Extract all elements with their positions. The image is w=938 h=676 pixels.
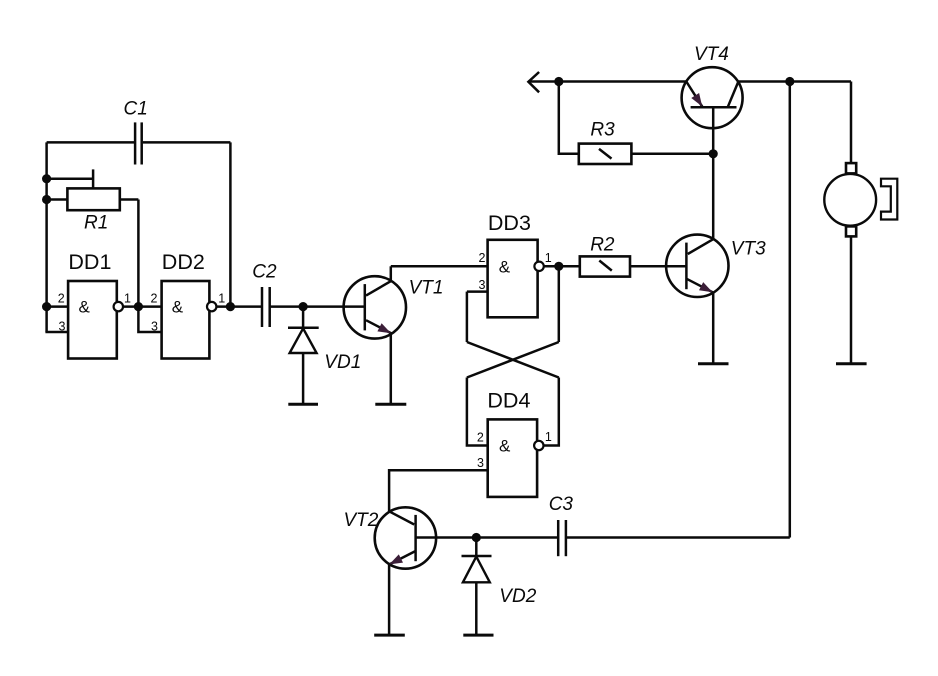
transistor VT2 xyxy=(375,507,436,568)
svg-text:VT1: VT1 xyxy=(409,278,444,299)
resistor R3 xyxy=(579,144,632,164)
wire: top-left feedback horizontal to C1 xyxy=(47,141,134,144)
diode VD2 xyxy=(462,538,492,635)
svg-text:3: 3 xyxy=(478,278,485,292)
wire: VT2 emitter drop xyxy=(388,565,391,635)
node: DD1 out / R1 return junction xyxy=(134,302,143,311)
wire: top rail left segment xyxy=(528,80,686,83)
svg-text:C1: C1 xyxy=(124,99,148,120)
wire: left coupling vertical lower xyxy=(467,378,488,446)
logic gate DD4 xyxy=(488,419,544,497)
wire: C1 right to drop corner xyxy=(143,141,231,144)
svg-text:C2: C2 xyxy=(252,262,277,283)
wire: R2 to VT3 base xyxy=(630,265,686,268)
motor M xyxy=(824,163,897,236)
logic gate DD1 xyxy=(68,281,123,359)
wire: motor drop xyxy=(850,82,853,164)
wire: DD3 pin3 stub xyxy=(467,290,488,293)
wire: VT2 base to C3 xyxy=(416,536,558,539)
wire: coupling diagonal right-to-left xyxy=(467,342,559,378)
wire: DD4 pin3 to VT2 collector xyxy=(389,470,488,511)
wire: R3 drop from rail xyxy=(559,82,579,154)
diode VD1 xyxy=(288,307,319,404)
resistor R2 xyxy=(580,256,630,276)
svg-text:2: 2 xyxy=(58,291,65,305)
wire: right coupling vertical lower xyxy=(543,378,558,446)
wire: DD1 pin3 branch xyxy=(45,331,68,334)
node: R3 / VT4 base junction xyxy=(709,149,718,158)
wire: VT1 emitter drop xyxy=(390,333,393,403)
svg-text:VT3: VT3 xyxy=(731,238,766,259)
svg-text:2: 2 xyxy=(477,431,484,445)
wire: wiper horizontal xyxy=(47,177,94,180)
svg-text:VD1: VD1 xyxy=(324,352,361,373)
resistor R1 (trimmer) xyxy=(67,169,119,210)
svg-text:VT4: VT4 xyxy=(694,44,729,65)
node: VD1 junction xyxy=(299,302,308,311)
node: DD2 out / C1 drop junction xyxy=(226,302,235,311)
svg-text:R3: R3 xyxy=(590,120,615,141)
ground (VD1) xyxy=(288,403,318,406)
svg-text:&: & xyxy=(172,298,184,317)
svg-text:DD3: DD3 xyxy=(488,211,531,235)
node: rail / C3 riser junction xyxy=(785,77,794,86)
node: rail/DD1 pin2 junction xyxy=(42,302,51,311)
node: DD3 output junction xyxy=(554,262,563,271)
wire: C2 to VT1 base xyxy=(270,305,365,308)
svg-text:1: 1 xyxy=(545,251,552,265)
wire: C3 riser vertical xyxy=(789,82,792,538)
wire: motor to ground xyxy=(850,236,853,362)
svg-text:1: 1 xyxy=(218,291,225,305)
wire: DD3 output to R2 xyxy=(544,265,580,268)
svg-text:3: 3 xyxy=(151,319,158,333)
ground (motor) xyxy=(836,362,867,365)
transistor VT4 xyxy=(682,67,743,128)
capacitor C3 xyxy=(558,520,566,556)
svg-text:3: 3 xyxy=(477,456,484,470)
wire: right coupling vertical upper xyxy=(558,266,561,342)
svg-text:VT2: VT2 xyxy=(344,510,379,531)
svg-text:R2: R2 xyxy=(590,234,615,255)
capacitor C1 xyxy=(135,122,142,164)
wire: VT1 collector to DD3 pin2 xyxy=(391,265,488,268)
svg-text:&: & xyxy=(499,257,511,276)
wire: R3 to VT4 base node xyxy=(631,153,713,156)
svg-text:&: & xyxy=(499,437,511,456)
transistor VT3 xyxy=(666,235,728,297)
node: rail/R1 left lead xyxy=(42,195,51,204)
svg-text:2: 2 xyxy=(151,291,158,305)
wire: R1 return vertical xyxy=(137,200,140,307)
svg-text:C3: C3 xyxy=(549,494,574,515)
svg-text:2: 2 xyxy=(478,251,485,265)
svg-text:R1: R1 xyxy=(84,213,108,234)
ground (VT2) xyxy=(374,634,405,637)
svg-text:VD2: VD2 xyxy=(499,586,536,607)
wire: DD2 output to C2 xyxy=(216,305,262,308)
node: rail/R3 junction xyxy=(554,77,563,86)
svg-text:1: 1 xyxy=(124,291,131,305)
ground (VT3) xyxy=(698,362,729,365)
svg-text:DD2: DD2 xyxy=(162,250,205,274)
wire: DD1 output to DD2 pin2 xyxy=(123,305,162,308)
svg-text:&: & xyxy=(79,298,91,317)
wire: VT3 emitter drop xyxy=(712,292,715,363)
wire: R1 right lead xyxy=(120,198,139,201)
capacitor C2 xyxy=(262,287,270,327)
wire: rail to DD1 pin2 xyxy=(47,305,69,308)
wire: C3 to riser xyxy=(566,536,790,539)
wire: left coupling vertical upper xyxy=(466,292,469,342)
logic gate DD3 xyxy=(488,240,544,317)
wire: R1 left lead xyxy=(47,198,68,201)
wire: top rail right segment xyxy=(738,80,851,83)
logic gate DD2 xyxy=(162,281,217,359)
wire: coupling diagonal left-to-right xyxy=(467,342,559,378)
arrow: supply output xyxy=(528,72,539,92)
wire: left rail vertical xyxy=(45,142,48,332)
svg-text:DD4: DD4 xyxy=(487,389,530,413)
ground (VT1) xyxy=(375,403,406,406)
svg-text:DD1: DD1 xyxy=(68,250,111,274)
ground (VD2) xyxy=(463,634,493,637)
wire: DD2 pin3 branch xyxy=(138,307,161,332)
wire: VT1 collector riser xyxy=(390,266,393,281)
svg-text:3: 3 xyxy=(59,319,66,333)
node: rail/R1 wiper xyxy=(42,174,51,183)
wire: C1 right vertical drop xyxy=(229,142,232,306)
node: VD2 junction xyxy=(472,533,481,542)
svg-text:1: 1 xyxy=(545,430,552,444)
wire: VT3 collector riser to VT4 base xyxy=(712,107,715,239)
transistor VT1 xyxy=(344,276,406,338)
